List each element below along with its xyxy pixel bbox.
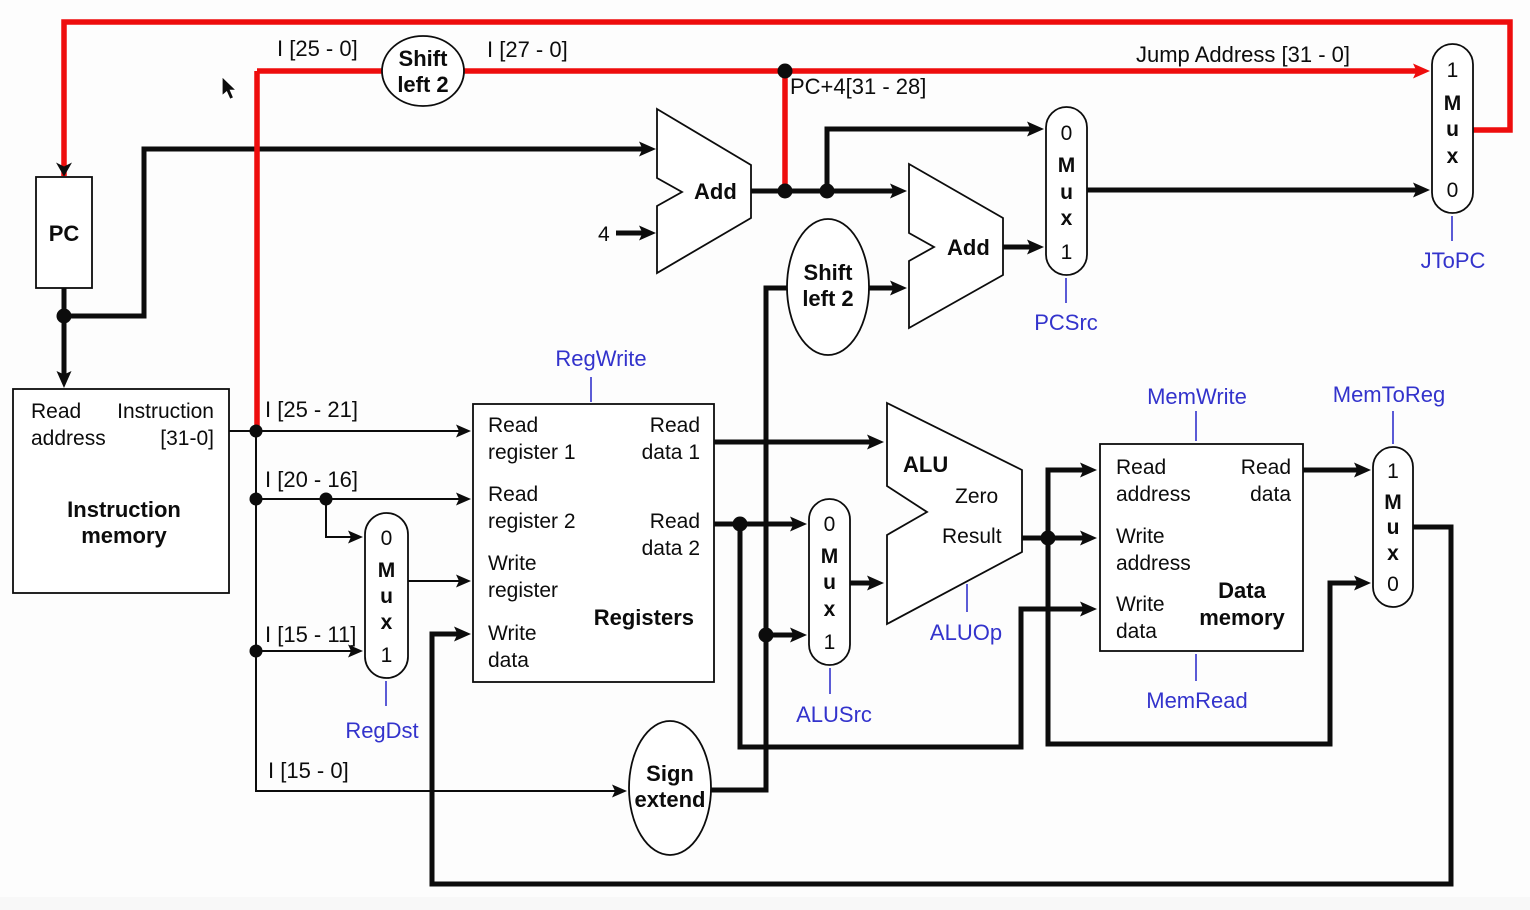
svg-text:RegWrite: RegWrite: [555, 346, 646, 371]
wire shift-left-2 output to Add2: [869, 286, 894, 291]
svg-text:MemToReg: MemToReg: [1333, 382, 1445, 407]
wire ALU result to Data memory Write address: [1022, 536, 1084, 541]
wire I[15-11] to RegDst mux input 1: [256, 650, 351, 652]
svg-text:address: address: [31, 427, 106, 450]
svg-text:M: M: [1444, 92, 1462, 115]
control tick MemRead: [1195, 654, 1197, 681]
svg-text:x: x: [1061, 207, 1073, 230]
wire instruction bus from memory: [229, 430, 256, 432]
wire red I[25-0] vertical down to instruction bus: [254, 71, 260, 428]
svg-text:I [15 - 0]: I [15 - 0]: [268, 758, 349, 783]
svg-text:0: 0: [381, 527, 393, 550]
junction instruction bus I[15-11]: [250, 645, 263, 658]
svg-text:I [25 - 0]: I [25 - 0]: [277, 36, 358, 61]
svg-text:0: 0: [1387, 573, 1399, 596]
svg-text:0: 0: [1447, 179, 1459, 202]
control tick ALUOp: [966, 584, 968, 612]
svg-text:Jump Address [31 - 0]: Jump Address [31 - 0]: [1136, 42, 1350, 67]
control tick PCSrc: [1065, 278, 1067, 303]
svg-text:I [15 - 11]: I [15 - 11]: [265, 622, 356, 647]
wire red PC+4[31-28] vertical: [782, 71, 788, 190]
junction PC output: [57, 309, 72, 324]
junction I[20-16] branch: [320, 493, 333, 506]
junction ALU result branch: [1041, 531, 1056, 546]
svg-text:0: 0: [824, 513, 836, 536]
svg-text:1: 1: [381, 644, 393, 667]
wire RegDst mux output to Write register: [408, 580, 459, 582]
svg-text:[31-0]: [31-0]: [160, 427, 214, 450]
wire I[25-21] to Read register 1: [256, 430, 459, 432]
svg-text:u: u: [1387, 516, 1400, 539]
wire sign-extend branch to ALUSrc mux input 1: [766, 633, 794, 638]
svg-text:data: data: [488, 649, 529, 672]
svg-text:memory: memory: [1199, 605, 1285, 630]
svg-text:Read: Read: [1241, 456, 1291, 479]
mux JToPC: [1432, 44, 1473, 213]
PC register box: [36, 177, 92, 288]
svg-text:M: M: [1384, 491, 1402, 514]
svg-text:1: 1: [1061, 241, 1073, 264]
svg-text:0: 0: [1061, 122, 1073, 145]
svg-text:x: x: [824, 598, 836, 621]
wire Data memory Read data to MemToReg mux input 1: [1303, 468, 1358, 473]
svg-text:u: u: [823, 571, 836, 594]
mux RegDst: [365, 513, 408, 678]
svg-text:Read: Read: [1116, 456, 1166, 479]
shift left 2 (branch) ellipse: [787, 219, 869, 355]
wire red JToPC mux output feedback to PC: [64, 22, 1510, 176]
wire Read data 2 to ALUSrc mux input 0: [714, 522, 794, 527]
svg-text:left 2: left 2: [802, 286, 853, 311]
svg-text:left 2: left 2: [397, 72, 448, 97]
svg-text:address: address: [1116, 552, 1191, 575]
wire PC output down to instruction memory: [62, 288, 67, 375]
svg-text:4: 4: [598, 223, 610, 246]
svg-text:Add: Add: [694, 179, 737, 204]
svg-text:ALUSrc: ALUSrc: [796, 702, 872, 727]
svg-text:register: register: [488, 579, 558, 602]
svg-text:extend: extend: [635, 787, 706, 812]
svg-text:PC+4[31 - 28]: PC+4[31 - 28]: [790, 74, 926, 99]
svg-text:Write: Write: [1116, 593, 1165, 616]
control tick RegWrite: [590, 377, 592, 402]
svg-text:u: u: [1060, 181, 1073, 204]
svg-text:M: M: [378, 559, 396, 582]
svg-text:Result: Result: [942, 525, 1002, 548]
mux PCSrc: [1046, 107, 1087, 275]
svg-text:M: M: [1058, 154, 1076, 177]
wire PC+4 branch up to PCSrc mux input 0: [827, 129, 1031, 191]
svg-text:Read: Read: [31, 400, 81, 423]
svg-text:Data: Data: [1218, 578, 1266, 603]
control tick RegDst: [385, 681, 387, 706]
svg-text:memory: memory: [81, 523, 167, 548]
svg-text:x: x: [1387, 542, 1399, 565]
shift left 2 (jump) ellipse: [382, 36, 464, 106]
svg-text:register 2: register 2: [488, 510, 576, 533]
junction Add1 output / branch to PCSrc: [820, 184, 835, 199]
wire I[20-16] branch to RegDst mux input 0: [326, 499, 351, 537]
wire Read data 1 to ALU: [714, 440, 871, 445]
svg-text:MemRead: MemRead: [1146, 688, 1247, 713]
svg-text:ALUOp: ALUOp: [930, 620, 1002, 645]
junction jump line / PC+4: [778, 64, 793, 79]
control tick JToPC: [1451, 216, 1453, 241]
svg-text:Instruction: Instruction: [67, 497, 181, 522]
svg-text:MemWrite: MemWrite: [1147, 384, 1247, 409]
junction instruction bus I[20-16]: [250, 493, 263, 506]
svg-text:Read: Read: [650, 510, 700, 533]
control tick MemToReg: [1392, 411, 1394, 444]
svg-text:Read: Read: [488, 414, 538, 437]
svg-text:Write: Write: [488, 622, 537, 645]
svg-text:data: data: [1116, 620, 1157, 643]
wire constant 4 into Add1: [616, 231, 643, 236]
mux MemToReg: [1373, 447, 1413, 607]
wire red jump address line: [257, 68, 1417, 74]
junction sign-extend branch: [759, 628, 774, 643]
svg-text:x: x: [381, 611, 393, 634]
svg-text:I [20 - 16]: I [20 - 16]: [265, 467, 358, 492]
adder Add2 (branch target): [909, 164, 1003, 328]
junction instruction bus I[25-21]: [250, 425, 263, 438]
sign extend ellipse: [629, 721, 711, 855]
arrowhead into PC: [56, 163, 72, 177]
wire PCSrc mux output to JToPC mux input 0: [1087, 188, 1417, 193]
svg-text:data 1: data 1: [642, 441, 700, 464]
Registers box: [473, 404, 714, 682]
svg-text:Add: Add: [947, 235, 990, 260]
wire PC output branch to Add1: [64, 149, 643, 316]
svg-text:M: M: [821, 545, 839, 568]
wire sign-extend output up to shift-left-2: [711, 288, 788, 790]
ALU U1: [887, 403, 1022, 624]
wire Add2 output to PCSrc mux input 1: [1003, 245, 1031, 250]
mouse cursor: [222, 77, 237, 100]
svg-text:register 1: register 1: [488, 441, 576, 464]
svg-text:u: u: [1446, 118, 1459, 141]
svg-text:PC: PC: [49, 221, 80, 246]
svg-text:PCSrc: PCSrc: [1034, 310, 1098, 335]
svg-text:RegDst: RegDst: [345, 718, 418, 743]
svg-text:1: 1: [1447, 59, 1459, 82]
wire Read data 2 branch to Data memory Write data: [740, 524, 1084, 747]
svg-text:Shift: Shift: [804, 260, 854, 285]
mux ALUSrc: [809, 499, 850, 665]
junction Add1 output / red vertical: [778, 184, 793, 199]
svg-text:Sign: Sign: [646, 761, 694, 786]
svg-text:I [25 - 21]: I [25 - 21]: [265, 397, 358, 422]
svg-text:JToPC: JToPC: [1421, 248, 1486, 273]
Data memory box: [1100, 444, 1303, 651]
svg-text:I [27 - 0]: I [27 - 0]: [487, 37, 568, 62]
svg-text:data 2: data 2: [642, 537, 700, 560]
svg-text:u: u: [380, 585, 393, 608]
svg-text:Write: Write: [488, 552, 537, 575]
wire instruction bus vertical and I[15-0] to sign extend: [256, 431, 615, 791]
svg-text:1: 1: [1387, 460, 1399, 483]
wire ALU result branch down to MemToReg mux input 0: [1048, 538, 1358, 744]
control tick MemWrite: [1195, 411, 1197, 441]
wire ALU result branch up to Data memory Read address: [1048, 470, 1084, 538]
svg-text:1: 1: [824, 631, 836, 654]
adder Add1 (PC+4): [657, 109, 751, 273]
svg-text:x: x: [1447, 145, 1459, 168]
wire MemToReg mux output feedback to Registers Write data: [432, 527, 1451, 884]
svg-text:data: data: [1250, 483, 1291, 506]
svg-text:address: address: [1116, 483, 1191, 506]
svg-text:Registers: Registers: [594, 605, 694, 630]
wire ALUSrc mux output to ALU: [850, 581, 871, 586]
svg-text:Instruction: Instruction: [117, 400, 214, 423]
wire Add1 output to Add2: [751, 189, 894, 194]
junction Read data 2 branch: [733, 517, 748, 532]
wire I[20-16] to Read register 2: [256, 498, 459, 500]
control tick ALUSrc: [829, 668, 831, 694]
svg-text:Shift: Shift: [399, 46, 449, 71]
svg-text:Read: Read: [650, 414, 700, 437]
svg-text:Read: Read: [488, 483, 538, 506]
Instruction memory box: [13, 389, 229, 593]
svg-text:Zero: Zero: [955, 485, 998, 508]
svg-text:Write: Write: [1116, 525, 1165, 548]
svg-text:ALU: ALU: [903, 452, 948, 477]
